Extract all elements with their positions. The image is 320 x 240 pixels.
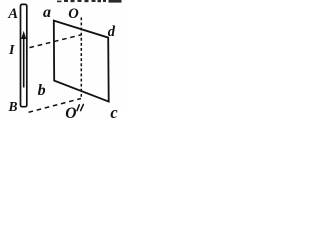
svg-text:a: a [43,4,51,21]
dashed axis O-O'' [80,17,82,98]
svg-text:b: b [38,82,46,99]
loop abcd (parallelogram) [54,21,109,102]
upper dashed line wire->axis [30,35,82,48]
wire AB (vertical conductor outline) [21,4,27,106]
labels [7,4,115,122]
svg-text:B: B [8,99,18,114]
svg-text:I: I [8,43,15,58]
current arrow shaft [23,38,25,88]
svg-text:O: O [68,6,79,22]
svg-text:d: d [108,24,116,40]
svg-text:c: c [110,103,118,119]
svg-text:O: O [65,105,76,119]
svg-text:A: A [7,6,18,22]
cropped text line at top [57,0,122,3]
current arrow head [21,31,26,39]
lower dashed line B->O'' [29,99,82,113]
double prime of O'' [77,104,83,110]
